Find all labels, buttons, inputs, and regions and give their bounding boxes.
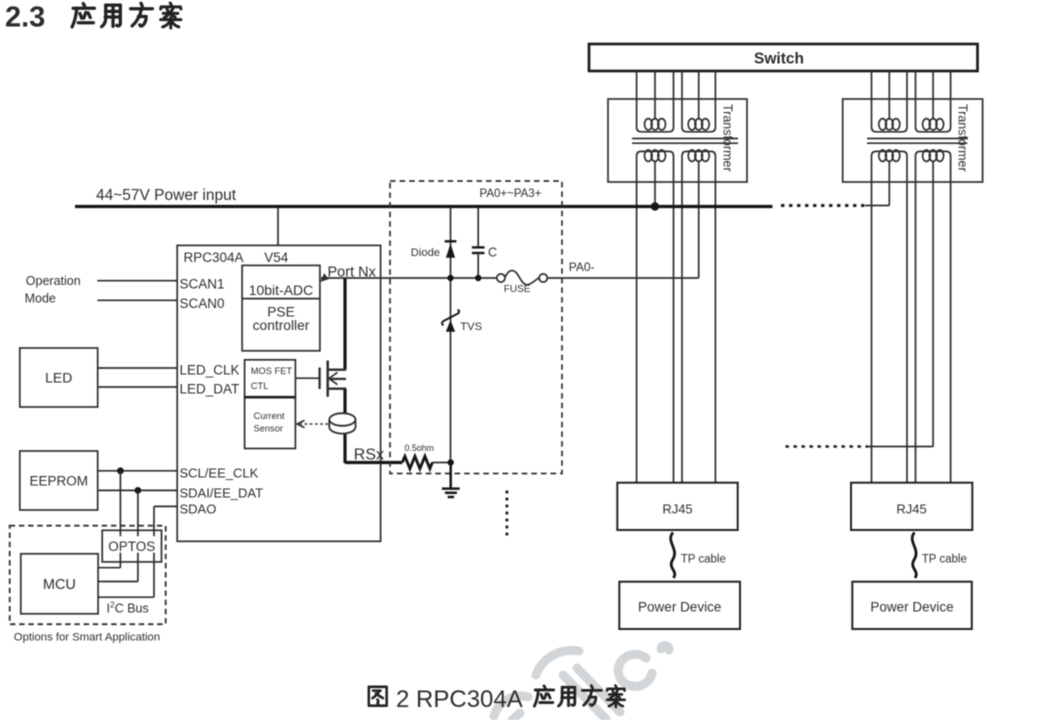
TVS triangle [446,320,455,332]
svg-text:SCAN1: SCAN1 [180,277,225,292]
T1 primary winding A (wires to Switch) [637,71,674,132]
wire: T1 secondary B center tap down to PA0- line [698,161,700,278]
junction dot SDA [135,487,142,494]
svg-text:Operation: Operation [26,274,81,288]
svg-text:Diode: Diode [411,247,440,259]
svg-text:Transformer: Transformer [956,104,970,172]
Current Sensor box [245,397,296,448]
pin stub SDAO [154,505,177,507]
T2 core [867,139,967,144]
T2 secondary winding A (wires to RJ45) [872,150,908,483]
T1 secondary winding B (wires to RJ45) [682,150,715,483]
pin wire LED_DAT [98,386,178,388]
dotted PA line continuation (right) [786,445,869,448]
svg-text:2 RPC304A: 2 RPC304A [396,686,523,713]
sense resistor RSx 0.5ohm [402,456,432,468]
FUSE symbol [497,271,548,285]
pin wire SCL/EE_CLK [98,470,178,472]
MCU wire 3 [98,596,154,598]
LED box [20,348,98,407]
svg-text:SCL/EE_CLK: SCL/EE_CLK [180,466,259,481]
wire: T1 secondary A center tap to power rail [654,161,656,205]
svg-text:C: C [488,246,497,260]
svg-text:FUSE: FUSE [504,284,531,295]
dashed port-protection box [390,181,562,474]
ground symbol [442,463,460,498]
pin wire LED_CLK [98,367,178,369]
section title 2.3 应用方案 [5,2,181,34]
wire: T2 secondary B center tap down to dotted PA line [932,161,934,447]
svg-text:Transformer: Transformer [721,104,735,172]
transformer T2 box [843,99,983,182]
Port Nx arrow into ADC corner [320,273,328,282]
current sense transformer donut [329,413,355,433]
diode D cathode bar [445,240,457,242]
dotted feedback arrow to Current Sensor [300,423,328,425]
figure caption 图 2 RPC304A 应用方案 [369,685,625,713]
rail dotted continuation [781,204,866,207]
bold divider between CTL and Sensor [245,396,296,399]
TP cable squiggle right [912,533,916,579]
svg-text:10bit-ADC: 10bit-ADC [249,282,314,298]
svg-text:Sensor: Sensor [254,424,283,434]
svg-text:SDAI/EE_DAT: SDAI/EE_DAT [180,486,264,501]
capacitor C branch wire upper [477,208,479,247]
svg-text:V54: V54 [264,250,289,265]
svg-text:MOS FET: MOS FET [251,366,293,376]
svg-text:RPC304A: RPC304A [184,250,244,265]
EEPROM box [20,451,98,510]
svg-text:CTL: CTL [251,381,269,391]
thick source wire to RSx [345,461,402,464]
port line from ADC to fuse [321,277,497,279]
44~57V power rail [75,205,773,208]
svg-text:PA0-: PA0- [569,260,595,274]
RJ45 box left [617,483,737,530]
svg-text:44~57V Power input: 44~57V Power input [96,187,237,204]
ADC divider [242,298,320,300]
svg-text:I2C Bus: I2C Bus [107,600,149,616]
svg-text:RJ45: RJ45 [662,502,692,517]
junction dot diode/port line [447,275,453,281]
OPTOS box [102,530,161,562]
wire resistor to ground node [432,462,451,464]
I2C vertical wire 1 [119,471,121,568]
svg-text:Current: Current [254,411,285,421]
diode D triangle [446,244,455,258]
svg-text:RSx: RSx [354,447,384,464]
MCU wire 1 [98,567,120,569]
RPC304A chip box [177,245,380,541]
TVS bar (zener) [442,310,459,325]
options dashed box [10,526,166,625]
svg-text:Mode: Mode [25,292,56,306]
T2 primary winding A (wires to Switch) [872,71,908,132]
10bit-ADC / PSE controller box [242,265,320,350]
pin wire SDAI/EE_DAT [98,489,178,491]
TP cable squiggle left [671,533,675,579]
MOSFET Q drain wire (thick) [343,278,346,370]
MCU wire 2 [98,581,138,583]
junction dot at ground node [448,459,454,465]
PA0- wire to T1 tap [547,277,698,279]
svg-text:TP cable: TP cable [681,554,726,566]
capacitor C plates [472,246,485,248]
svg-text:Power Device: Power Device [870,600,953,615]
diode branch wire [450,208,452,463]
svg-text:EEPROM: EEPROM [29,474,88,489]
vertical ellipsis dots (more ports) [506,491,509,536]
svg-text:Switch: Switch [754,51,804,68]
MOSFET gate lead [295,377,319,379]
MOSFET source wire (thick) through sensor [343,389,346,463]
Switch box [589,44,978,71]
MOSFET source stub [328,388,346,390]
svg-text:SCAN0: SCAN0 [180,296,225,311]
svg-text:SDAO: SDAO [180,502,217,517]
T2 primary winding B (wires to Switch) [916,71,951,132]
svg-text:PA0+~PA3+: PA0+~PA3+ [480,188,542,200]
svg-text:LED_DAT: LED_DAT [180,382,240,397]
MOSFET channel bar [326,361,329,397]
svg-text:2.3: 2.3 [5,2,45,34]
wire: T2 secondary A center tap to power-rail link [888,161,890,206]
MOSFET bulk stub with arrow [330,378,346,380]
svg-text:0.5ohm: 0.5ohm [405,443,434,453]
RJ45 box right [851,483,972,530]
transformer T1 box [608,99,747,182]
svg-text:LED_CLK: LED_CLK [180,363,240,378]
svg-text:Power Device: Power Device [638,600,721,615]
svg-text:controller: controller [253,318,310,333]
svg-text:TP cable: TP cable [922,554,967,566]
rail junction dot at T1 tap [651,202,659,210]
junction dot SCL [117,467,124,474]
MOSFET gate bar [318,368,320,390]
svg-text:OPTOS: OPTOS [108,539,155,554]
Power Device box left [619,582,740,629]
wire: dotted PA line to T2 tap corner [867,446,933,448]
capacitor C branch wire lower [477,253,479,278]
feed wire from rail to RPC304A [277,208,279,245]
svg-text:TVS: TVS [460,321,482,333]
T1 primary winding B (wires to Switch) [682,71,715,132]
pin wire SCAN0 [97,299,177,301]
junction dot cap/port line [475,275,481,281]
MCU box [21,554,98,614]
svg-text:RJ45: RJ45 [896,502,926,517]
svg-text:LED: LED [45,370,72,386]
T1 core [632,139,738,144]
rail link wire to T2 tap [865,205,889,207]
svg-text:Options for Smart Application: Options for Smart Application [14,632,160,644]
T1 secondary winding A (wires to RJ45) [637,150,674,483]
svg-text:MCU: MCU [43,577,76,593]
pin wire SCAN1 [97,280,177,282]
MOSFET drain stub [328,369,346,371]
MOS FET CTL box [245,360,296,397]
watermark [494,645,669,720]
Power Device box right [852,582,972,629]
I2C vertical wire 2 [137,490,139,581]
T2 secondary winding B (wires to RJ45) [916,150,951,483]
I2C vertical wire 3 (SDAO) [153,506,155,597]
